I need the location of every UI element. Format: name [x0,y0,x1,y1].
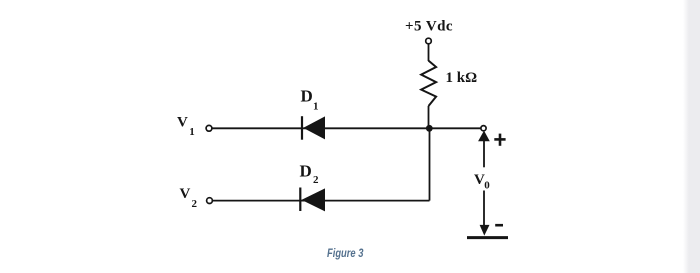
input terminal V1 [206,125,212,131]
right gray band [683,0,700,273]
up arrowhead + [478,131,490,142]
svg-text:V: V [180,186,191,202]
svg-text:2: 2 [192,198,198,210]
svg-text:V: V [177,115,188,131]
wire resistor to node [428,106,430,128]
down arrowhead - [480,225,490,236]
diode D2 [299,188,301,212]
wire V1 to node [212,127,481,129]
wire supply to resistor [428,44,430,61]
svg-text:D: D [300,162,312,181]
diode D1 [301,116,303,140]
svg-text:1 kΩ: 1 kΩ [446,70,478,86]
node junction dot [426,125,433,132]
svg-text:+5 Vdc: +5 Vdc [405,19,453,35]
wire arrow stem upper [483,141,485,168]
output terminal [481,126,486,131]
svg-text:1: 1 [313,101,319,113]
svg-text:D: D [301,87,313,106]
input terminal V2 [207,198,213,204]
svg-text:1: 1 [189,126,195,138]
wire V2 to corner [213,200,430,202]
svg-text:0: 0 [484,180,490,192]
minus sign [495,224,503,227]
wire arrow stem lower [483,191,485,227]
wire corner up to node [429,128,431,200]
supply terminal [426,38,432,44]
svg-text:2: 2 [313,174,319,186]
ground bar [467,236,508,239]
resistor R 1k zigzag [421,61,436,106]
caption Figure 3 [327,246,363,260]
plus sign [494,138,505,141]
